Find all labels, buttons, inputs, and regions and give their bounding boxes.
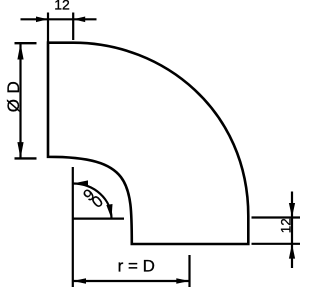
svg-text:0: 0 [89, 193, 107, 212]
svg-text:r = D: r = D [118, 256, 155, 275]
svg-text:12: 12 [54, 0, 70, 12]
svg-text:Ø D: Ø D [4, 81, 23, 112]
svg-text:12: 12 [278, 218, 293, 233]
